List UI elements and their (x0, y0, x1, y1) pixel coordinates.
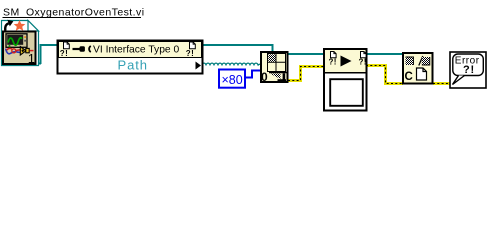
Start Asynchronous Call node (324, 49, 367, 111)
svg-text:?!: ?! (186, 49, 194, 58)
label SM_OxygenatorOvenTest.vi (3, 7, 145, 19)
svg-text:SM_OxygenatorOvenTest.vi: SM_OxygenatorOvenTest.vi (3, 7, 145, 19)
svg-text:?!: ?! (329, 58, 337, 67)
wire: error Close Reference to Simple Error Handler (433, 82, 450, 85)
wire: path (wavy) from Path row to Open VI Reference (202, 63, 260, 65)
glyph: async refnum page ?! (right, start async) (359, 52, 367, 67)
numeric constant x80 (219, 70, 245, 88)
wire: error Start Asynchronous Call to Close Reference (366, 66, 403, 84)
static VI reference node (page with fold, arrow, star, VI icon) (2, 20, 39, 66)
svg-text:0: 0 (261, 70, 268, 84)
wire: strictly-typed VI refnum from static ref to type box (34, 45, 57, 64)
svg-text:VI Interface Type 0: VI Interface Type 0 (93, 45, 180, 56)
VI icon inside static reference (3, 32, 36, 66)
svg-text:1: 1 (28, 51, 35, 66)
svg-text:?!: ?! (359, 58, 367, 67)
wire: VI refnum from type box to Open VI Reference (202, 45, 273, 52)
svg-text:Path: Path (118, 58, 148, 73)
VI refnum type specifier box (VI Interface Type 0 / Path) (58, 41, 203, 74)
Close Reference node (403, 53, 433, 84)
svg-text:×80: ×80 (222, 73, 243, 87)
wire: VI refnum Open VI Reference to Start Asynchronous Call (288, 53, 323, 55)
wire: options (blue) from x80 constant to Open VI Reference (245, 71, 261, 78)
svg-text:?!: ?! (60, 49, 68, 58)
glyph: VI refnum plug (73, 46, 91, 52)
glyph: async refnum page ?! (left, start async) (329, 52, 337, 67)
Open VI Reference node (261, 52, 288, 84)
glyph: refnum page ?! (right, type box) (186, 42, 196, 58)
glyph: play triangle (341, 56, 352, 67)
svg-text:?!: ?! (463, 64, 475, 76)
wire: error Open VI Reference to Start Asynchronous Call (288, 67, 324, 81)
text: Path (path control row) (118, 58, 202, 73)
svg-text:C: C (405, 71, 413, 83)
glyph: refnum page ?! (left, type box) (60, 42, 69, 58)
wire: VI refnum Start Asynchronous Call to Close Reference (367, 53, 403, 55)
Simple Error Handler node (450, 52, 486, 88)
